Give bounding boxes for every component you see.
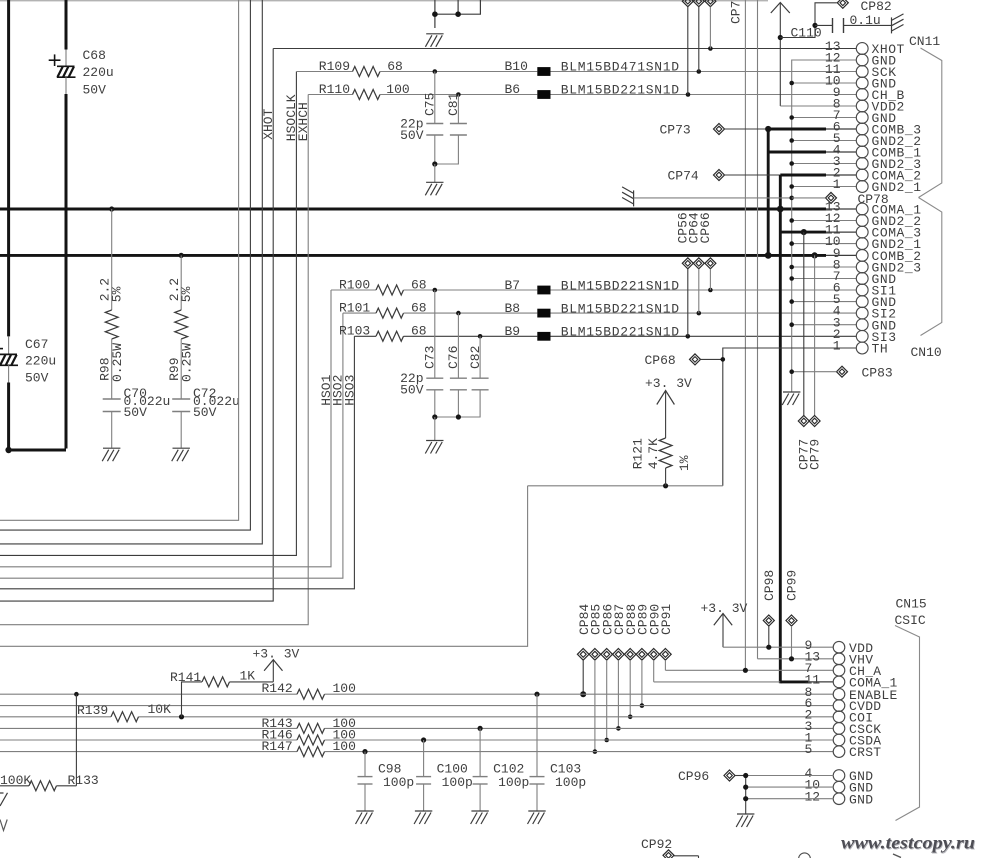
checkpoint CP66	[705, 258, 716, 290]
svg-text:C67: C67	[25, 337, 48, 352]
label CP84	[577, 604, 592, 635]
node SCK junction	[697, 69, 702, 74]
wire thick link B	[779, 175, 782, 683]
node ENABLE taps	[74, 692, 539, 697]
checkpoint CP84	[577, 649, 589, 698]
node GND bus y83.0	[789, 81, 794, 86]
svg-text:B7: B7	[505, 278, 521, 293]
wire top stub B	[457, 0, 459, 14]
svg-text:R133: R133	[68, 773, 99, 788]
svg-text:50V: 50V	[83, 83, 107, 98]
connector CN15 pin circles	[833, 641, 845, 804]
connector CN10 pin names	[872, 203, 922, 357]
label R139	[77, 702, 171, 718]
wire CN10 GND stub y324.7	[792, 324, 857, 326]
checkpoint CP91	[660, 649, 672, 671]
svg-text:1: 1	[833, 177, 841, 192]
svg-text:68: 68	[411, 324, 427, 339]
wire COMB_3 row	[768, 128, 856, 131]
connector CN15 pin names	[849, 641, 898, 808]
node CP83 tap	[789, 369, 794, 374]
svg-text:0.25W: 0.25W	[180, 343, 195, 382]
svg-text:C110: C110	[791, 25, 822, 40]
svg-text:R147: R147	[262, 739, 293, 754]
svg-text:C75: C75	[423, 93, 438, 116]
node C110 tap	[812, 23, 817, 28]
node C103 tap	[534, 692, 539, 697]
capacitor C103	[530, 694, 545, 810]
svg-text:R142: R142	[262, 681, 293, 696]
wire COMA_2 row	[780, 174, 856, 177]
label C70 value	[124, 386, 171, 420]
svg-text:CP92: CP92	[641, 837, 672, 852]
wire CN11 GND stub y163.5	[792, 163, 857, 165]
label cut mark	[0, 820, 7, 831]
capacitor C98	[358, 752, 373, 811]
resistor R146	[297, 735, 325, 745]
svg-text:R139: R139	[77, 703, 108, 718]
label C82	[468, 346, 483, 369]
resistor R141	[182, 660, 274, 717]
wire COI row	[0, 716, 833, 718]
ground C98	[356, 811, 374, 824]
node C73 tap	[433, 288, 438, 293]
svg-text:C82: C82	[468, 346, 483, 369]
checkpoint CP73	[714, 124, 769, 135]
wire CP82 link	[780, 3, 837, 38]
connector CN11 pin circles	[856, 43, 868, 193]
wire net HSO3 vertical	[0, 336, 354, 589]
wire VDD2 row	[780, 105, 856, 107]
wire CSCK row	[0, 727, 833, 729]
label CP79	[807, 439, 822, 470]
node CH_B junction	[686, 92, 691, 97]
capacitor C81	[435, 95, 467, 165]
wire CSIC GND row 10	[746, 786, 834, 788]
ground C70	[102, 448, 120, 461]
checkpoint CP56	[682, 258, 693, 337]
svg-text:0.25W: 0.25W	[110, 343, 125, 382]
resistor R101	[343, 308, 537, 318]
ferrite bead B9	[537, 332, 550, 341]
node top stub joins	[432, 11, 461, 17]
label R121	[631, 438, 693, 471]
capacitor C82	[435, 336, 489, 417]
label R133	[0, 773, 99, 788]
checkpoint CP64	[693, 258, 704, 313]
resistor R109	[296, 67, 537, 77]
wire SI3 to pin	[551, 335, 857, 337]
checkpoint CP77	[798, 232, 809, 426]
checkpoint CP86	[601, 649, 613, 743]
wire net HSO2 vertical	[0, 313, 343, 578]
resistor R147	[297, 747, 325, 757]
wire net XHOT vertical	[0, 49, 273, 602]
svg-text:B9: B9	[505, 324, 521, 339]
capacitor C68	[49, 50, 76, 95]
ground C73 C76 C82	[425, 441, 443, 454]
wire CN10 GND stub y220.5	[792, 220, 857, 222]
svg-text:R109: R109	[319, 59, 350, 74]
label CP85	[589, 604, 604, 635]
wire CSIC GND row 4	[746, 775, 834, 777]
svg-text:100p: 100p	[383, 775, 414, 790]
connector CN15 pin numbers	[805, 638, 821, 805]
svg-text:12: 12	[805, 789, 821, 804]
label C103 value	[550, 762, 586, 791]
connector CN11 pin names	[872, 42, 922, 195]
label B10	[505, 59, 680, 74]
svg-text:R101: R101	[339, 301, 370, 316]
checkpoint diamond top 3	[705, 0, 716, 48]
checkpoint CP83	[792, 366, 848, 377]
wire COMB_2 bus (thick)	[0, 254, 857, 257]
wire TH horizontal	[0, 486, 723, 647]
svg-text:50V: 50V	[25, 370, 49, 385]
wire CSIC GND row 12	[746, 798, 834, 800]
svg-text:CP68: CP68	[645, 353, 676, 368]
node CSIC GND 4	[743, 773, 748, 778]
label C110	[791, 25, 822, 40]
capacitor C110	[815, 18, 892, 33]
svg-text:R121: R121	[631, 438, 646, 469]
ground cut mark	[0, 793, 8, 806]
node CH_A tap	[743, 668, 748, 673]
label C81	[446, 92, 461, 116]
svg-text:CP74: CP74	[668, 169, 699, 184]
checkpoint diamond top 1	[682, 0, 693, 95]
label C98 value	[378, 762, 414, 791]
label R103	[339, 324, 427, 339]
checkpoint CP87	[613, 649, 625, 731]
label CP86	[600, 604, 615, 635]
node XHOT junction	[708, 46, 713, 51]
checkpoint CP79	[809, 255, 820, 426]
svg-text:1%: 1%	[677, 455, 692, 471]
svg-text:50V: 50V	[400, 128, 424, 143]
svg-text:5%: 5%	[179, 286, 194, 302]
node CN10 GND bus y301.6	[789, 299, 794, 304]
label CP82	[861, 0, 892, 14]
svg-text:XHOT: XHOT	[261, 108, 276, 139]
wire CVDD row	[0, 705, 833, 707]
label CP96	[678, 769, 709, 784]
node C76 tap	[456, 311, 461, 316]
resistor R103	[354, 331, 537, 341]
svg-text:100p: 100p	[498, 775, 529, 790]
node SI1 junction	[708, 288, 713, 293]
resistor R98	[105, 209, 118, 399]
checkpoint CP90	[648, 649, 660, 682]
svg-text:R110: R110	[319, 82, 350, 97]
resistor R139	[111, 712, 139, 722]
node GND bus y163.5	[789, 161, 794, 166]
checkpoint CP68	[690, 354, 723, 365]
label CP83	[862, 365, 893, 380]
label CSIC	[895, 613, 926, 628]
wire top bus line 2	[0, 0, 250, 530]
label CP77	[797, 439, 812, 470]
power +3.3V R121	[645, 376, 692, 438]
node COMB_2 thick tap	[765, 252, 772, 259]
connector cut pin circle	[799, 853, 811, 858]
wire net HSOCLK vertical	[0, 72, 296, 556]
capacitor C67	[0, 336, 18, 382]
label CN11	[909, 34, 940, 49]
label CP90	[647, 604, 662, 635]
svg-text:50V: 50V	[193, 405, 217, 420]
label CP88	[624, 604, 639, 635]
wire CN11 GND stub y83.0	[792, 82, 857, 84]
bracket CN11	[919, 48, 942, 198]
label C76	[446, 346, 461, 369]
label CP78	[858, 192, 889, 207]
label net EXHCH	[296, 102, 311, 141]
svg-text:CSIC: CSIC	[895, 613, 926, 628]
svg-text:+3. 3V: +3. 3V	[645, 376, 692, 391]
connector CN10 pin numbers	[825, 200, 841, 354]
connector CN10 pin circles	[856, 203, 868, 354]
watermark www.testcopy.ru	[841, 833, 976, 858]
label C67 value	[25, 337, 56, 386]
svg-text:CP91: CP91	[659, 604, 674, 635]
label C102 value	[493, 762, 529, 791]
label CP56	[676, 212, 691, 243]
wire CRST row	[0, 751, 833, 753]
node CN10 GND bus y278.5	[789, 276, 794, 281]
node C102 tap	[478, 726, 483, 731]
power +V arrow top	[771, 3, 790, 107]
node C73 join	[432, 414, 461, 419]
label R100	[339, 277, 427, 292]
wire ENABLE row	[0, 693, 833, 695]
svg-text:C76: C76	[446, 346, 461, 369]
label CP68	[645, 353, 676, 368]
svg-text:CRST: CRST	[849, 745, 881, 760]
ground CP96	[736, 814, 754, 827]
ferrite bead B6	[537, 90, 550, 99]
svg-text:68: 68	[411, 277, 427, 292]
node CN10 GND bus y267.0	[789, 265, 794, 270]
label CP74	[668, 169, 699, 184]
label C73 value	[400, 371, 424, 398]
node R121 tap	[663, 483, 668, 488]
svg-text:C68: C68	[83, 48, 106, 63]
wire CN11 GND stub y140.5	[792, 140, 857, 142]
svg-text:0.1u: 0.1u	[850, 13, 881, 28]
wire COMA_3 row	[804, 231, 857, 234]
ground top structure	[425, 34, 443, 47]
node CN10 GND bus y220.5	[789, 218, 794, 223]
ground C100	[414, 811, 432, 824]
wire CN11 GND stub y117.5	[792, 117, 857, 119]
ground C102	[471, 811, 489, 824]
label CP87	[612, 604, 627, 635]
label R109	[319, 59, 403, 74]
ground C103	[528, 811, 546, 824]
wire CSIC GND link	[745, 776, 747, 814]
checkpoint CP98	[763, 615, 774, 647]
svg-text:CP99: CP99	[785, 570, 800, 601]
label CP66	[698, 212, 713, 243]
capacitor C76	[450, 313, 467, 417]
ground C110	[892, 14, 904, 34]
node C98 tap	[362, 749, 367, 754]
wire SCK to pin	[551, 71, 857, 73]
label R101	[339, 301, 427, 316]
ground GND bus	[782, 392, 800, 405]
label R146	[262, 728, 356, 743]
checkpoint CP96	[724, 770, 746, 781]
svg-text:220u: 220u	[25, 354, 56, 369]
wire COMA_1 CSIC row	[654, 681, 834, 683]
label C73	[423, 346, 438, 369]
svg-text:GND: GND	[849, 792, 873, 807]
label R143	[262, 716, 356, 731]
label CP98	[762, 570, 777, 601]
label R141	[170, 669, 255, 685]
svg-text:TH: TH	[872, 342, 889, 357]
svg-text:C81: C81	[446, 92, 461, 116]
capacitor C100	[416, 740, 431, 811]
node SI3 junction	[686, 334, 691, 339]
label C75	[423, 93, 438, 116]
node TH CP68 tap	[721, 357, 726, 362]
resistor R143	[297, 723, 325, 733]
svg-text:5%: 5%	[109, 286, 124, 302]
svg-text:68: 68	[411, 301, 427, 316]
wire top stub C	[435, 0, 481, 14]
svg-text:100p: 100p	[555, 775, 586, 790]
svg-text:R141: R141	[170, 670, 201, 685]
wire to ground	[434, 164, 436, 182]
wire CSDA row	[0, 739, 833, 741]
wire top stub A	[434, 0, 436, 28]
svg-text:100K: 100K	[0, 773, 31, 788]
svg-text:BLM15BD471SN1D: BLM15BD471SN1D	[561, 60, 680, 75]
svg-text:100: 100	[333, 681, 356, 696]
label B7	[505, 278, 680, 294]
svg-text:CP73: CP73	[660, 123, 691, 138]
node GND bus y186.5	[789, 184, 794, 189]
wire thick rail bottom link	[6, 449, 66, 452]
svg-text:CP96: CP96	[678, 769, 709, 784]
node GND bus y117.5	[789, 115, 794, 120]
checkpoint CP89	[636, 649, 648, 708]
svg-text:CN10: CN10	[911, 345, 942, 360]
label CN10	[911, 345, 942, 360]
svg-text:EXHCH: EXHCH	[296, 102, 311, 141]
svg-text:1: 1	[833, 339, 841, 354]
svg-text:50V: 50V	[400, 383, 424, 398]
capacitor C72	[172, 399, 190, 448]
svg-text:100: 100	[333, 739, 356, 754]
wire COMB_1 row	[768, 151, 856, 154]
bracket CN10	[919, 198, 942, 336]
label C110 value	[850, 13, 881, 28]
wire COMA_3 elbow	[780, 231, 804, 234]
wire CN11 GND stub y186.5	[792, 186, 857, 188]
resistor R142	[297, 689, 325, 699]
svg-text:100: 100	[386, 82, 409, 97]
node COMB_2 CP79 tap	[812, 252, 818, 258]
svg-text:CN15: CN15	[896, 597, 927, 612]
label net HSO3	[342, 375, 357, 406]
label CP73	[660, 123, 691, 138]
label CP7x cut	[729, 1, 744, 24]
wire top bus line 3	[0, 0, 262, 544]
label R110	[319, 82, 410, 97]
label CP92	[641, 837, 672, 852]
wire SI1 to pin	[551, 289, 857, 291]
wire SI2 to pin	[551, 312, 857, 314]
label net HSOCLK	[284, 94, 299, 141]
wire CN10 GND stub y301.6	[792, 301, 857, 303]
resistor R110	[308, 90, 537, 100]
svg-text:C73: C73	[423, 346, 438, 369]
resistor R133	[0, 694, 76, 791]
node C82 tap	[478, 334, 483, 339]
power +3.3V CSIC	[701, 601, 748, 647]
label B9	[505, 324, 680, 340]
label R99 values	[167, 278, 194, 382]
label R98 values	[98, 278, 125, 382]
wire CH_A feed vertical	[744, 0, 746, 670]
wire net EXHCH vertical	[0, 95, 308, 625]
wire caps to ground	[434, 417, 436, 440]
svg-text:GND2_1: GND2_1	[872, 180, 922, 195]
power +3.3V R141	[253, 647, 300, 671]
label B6	[505, 82, 680, 97]
node C100 tap	[421, 737, 426, 742]
label B8	[505, 301, 680, 317]
ground C72	[172, 448, 190, 461]
wire CN10 GND stub y278.5	[792, 278, 857, 280]
node CSIC GND 10	[743, 785, 748, 790]
svg-text:5: 5	[805, 742, 813, 757]
node COMB_3 thick tap	[765, 126, 771, 132]
svg-text:BLM15BD221SN1D: BLM15BD221SN1D	[561, 325, 680, 340]
capacitor C102	[473, 728, 488, 810]
wire CH_B to pin	[551, 94, 857, 96]
svg-text:BLM15BD221SN1D: BLM15BD221SN1D	[561, 278, 680, 293]
svg-text:R103: R103	[339, 324, 370, 339]
label C75 value	[400, 116, 424, 143]
wire CN10 GND stub y243.6	[792, 243, 857, 245]
checkpoint CP85	[589, 649, 601, 754]
wire VHV row	[758, 658, 834, 660]
node SI2 junction	[697, 311, 702, 316]
svg-text:CP82: CP82	[861, 0, 892, 14]
wire COMA_1 bus (thick)	[0, 208, 857, 211]
checkpoint diamond top 2	[693, 0, 704, 72]
node VHV CP99 tap	[789, 656, 794, 661]
wire left thick rail 2 (vertical bus x=66)	[65, 0, 68, 449]
svg-text:1K: 1K	[240, 669, 256, 684]
checkpoint CP78	[792, 192, 837, 203]
label R142	[262, 681, 356, 696]
bracket CN15	[895, 626, 920, 821]
wire XHOT row	[273, 48, 856, 50]
connector CN11 pin numbers	[825, 39, 841, 192]
node C75 tap	[433, 69, 438, 74]
svg-text:50V: 50V	[124, 405, 148, 420]
svg-text:68: 68	[387, 59, 403, 74]
svg-text:B8: B8	[505, 301, 521, 316]
checkpoint CP92	[663, 850, 699, 858]
node VDD2 stem tap	[778, 35, 783, 40]
ferrite bead B10	[537, 67, 550, 76]
